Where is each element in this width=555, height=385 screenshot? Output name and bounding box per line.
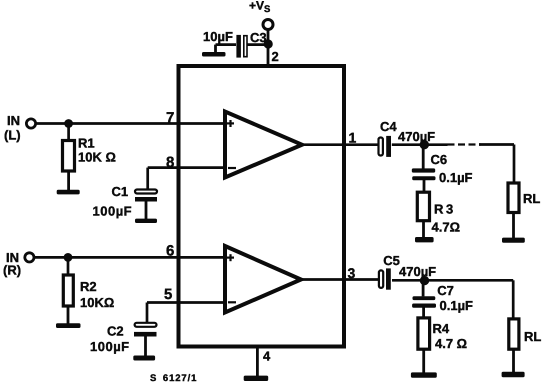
svg-text:4.7Ω: 4.7Ω	[432, 220, 461, 235]
svg-text:C4: C4	[380, 119, 397, 134]
svg-text:C7: C7	[437, 283, 454, 298]
svg-text:0.1µF: 0.1µF	[440, 298, 474, 313]
svg-text:2: 2	[272, 49, 279, 64]
svg-text:C5: C5	[383, 253, 400, 268]
svg-text:8: 8	[166, 154, 174, 171]
svg-text:(R): (R)	[3, 263, 21, 278]
svg-text:10KΩ: 10KΩ	[80, 295, 114, 310]
svg-text:6: 6	[166, 243, 174, 260]
svg-text:C3: C3	[250, 30, 267, 45]
svg-text:C2: C2	[107, 324, 124, 339]
svg-text:10K Ω: 10K Ω	[78, 150, 116, 165]
svg-text:7: 7	[166, 109, 174, 126]
svg-text:RL: RL	[524, 329, 541, 344]
svg-text:1: 1	[349, 129, 357, 145]
svg-text:R1: R1	[78, 136, 95, 151]
svg-text:10µF: 10µF	[203, 29, 233, 44]
svg-text:4.7 Ω: 4.7 Ω	[435, 336, 467, 351]
svg-text:3: 3	[348, 265, 356, 281]
svg-text:470µF: 470µF	[399, 264, 436, 279]
svg-text:C1: C1	[112, 184, 129, 199]
svg-text:470µF: 470µF	[398, 129, 435, 144]
svg-text:IN: IN	[7, 113, 20, 128]
svg-text:RL: RL	[523, 191, 540, 206]
svg-text:5: 5	[164, 286, 172, 303]
svg-text:(L): (L)	[4, 128, 21, 143]
svg-text:R2: R2	[80, 279, 97, 294]
svg-text:100µF: 100µF	[90, 339, 130, 354]
svg-text:0.1µF: 0.1µF	[439, 170, 473, 185]
svg-text:R4: R4	[433, 321, 450, 336]
svg-text:C6: C6	[431, 152, 448, 167]
svg-text:100µF: 100µF	[93, 204, 133, 219]
svg-text:4: 4	[263, 349, 271, 364]
svg-text:S 6127/1: S 6127/1	[150, 373, 197, 384]
svg-text:R 3: R 3	[434, 202, 453, 217]
